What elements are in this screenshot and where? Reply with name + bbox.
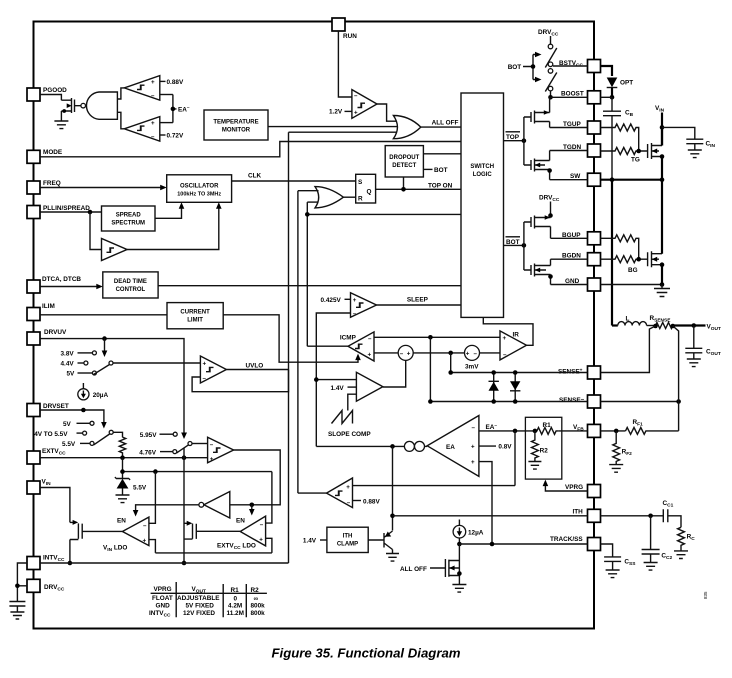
svg-text:3mV: 3mV: [465, 363, 479, 370]
svg-text:0.88V: 0.88V: [167, 79, 184, 86]
wire MODE to switch logic: [40, 142, 461, 157]
wire zener stem: [122, 458, 124, 479]
wire driver to BGUP line: [550, 227, 552, 239]
MOSFET EXTVCC pass device: [184, 523, 196, 539]
svg-text:IR: IR: [513, 332, 520, 339]
svg-text:TG: TG: [631, 157, 640, 164]
pin TRACK/SS: [588, 538, 601, 551]
wire dropout detect BOT stub: [423, 168, 432, 170]
wire to CIN: [662, 127, 695, 139]
wire R1 to VFB pin: [558, 430, 587, 432]
wire GND external: [601, 284, 663, 286]
wire DTCA,DTCB into dead time control: [40, 286, 98, 288]
svg-text:–: –: [151, 93, 155, 100]
svg-text:ITH: ITH: [343, 534, 353, 540]
svg-text:∞: ∞: [254, 596, 259, 603]
svg-text:0: 0: [234, 596, 238, 603]
svg-text:DROPOUT: DROPOUT: [389, 155, 419, 161]
wire SW pin line (inside): [550, 179, 588, 181]
wire inverter output to VIN LDO EN: [136, 505, 199, 512]
wire SENSE- external: [601, 401, 679, 403]
svg-text:SPECTRUM: SPECTRUM: [111, 221, 145, 227]
svg-text:11.2M: 11.2M: [227, 610, 244, 617]
svg-text:+: +: [151, 120, 155, 127]
ground: [10, 612, 24, 619]
pin BSTVCC: [588, 60, 601, 73]
pin SENSE+: [588, 366, 601, 379]
svg-text:+: +: [346, 484, 350, 491]
svg-text:+: +: [407, 350, 411, 357]
wire VPRG arrow into divider box: [545, 486, 587, 491]
MOSFET BG driver pull-down: [524, 264, 551, 277]
comparator ICMP: [348, 332, 374, 361]
svg-text:ALL OFF: ALL OFF: [432, 120, 459, 127]
svg-text:L: L: [626, 316, 630, 323]
pin BOOST: [588, 91, 601, 104]
ground under ALL OFF FET: [452, 585, 466, 593]
wire SENSE- line: [430, 401, 587, 403]
svg-text:GND: GND: [156, 603, 171, 610]
svg-text:DRVSET: DRVSET: [43, 403, 69, 410]
svg-text:Q: Q: [367, 189, 372, 196]
pin BGUP: [588, 232, 601, 245]
MOSFET TG power FET: [648, 143, 662, 159]
svg-text:TOP ON: TOP ON: [428, 183, 453, 190]
PGOOD pull-down MOSFET Q1: [61, 98, 81, 113]
svg-text:+: +: [368, 351, 372, 358]
svg-text:Figure 35. Functional Diagram: Figure 35. Functional Diagram: [271, 646, 460, 661]
svg-text:LOGIC: LOGIC: [473, 172, 493, 178]
svg-text:5V: 5V: [67, 371, 76, 378]
svg-text:ALL OFF: ALL OFF: [400, 566, 427, 573]
wire TRACK/SS line: [459, 543, 587, 545]
svg-text:–: –: [353, 310, 357, 317]
svg-text:–: –: [400, 350, 404, 357]
pin PLLIN/SPREAD: [27, 206, 40, 219]
ground power stage: [654, 285, 670, 297]
wire driver source to GND: [550, 275, 552, 285]
wire comparator A minus to EA- node: [160, 94, 173, 96]
svg-text:CURRENT: CURRENT: [180, 310, 210, 316]
wire ICMP to switch logic: [307, 213, 461, 215]
wire FET source to ground: [60, 111, 62, 121]
inverter U4: [204, 492, 230, 519]
MOSFET TG driver pull-down: [524, 159, 550, 172]
wire gate to EXTVCC LDO output: [196, 530, 240, 532]
resistor RC: [678, 527, 685, 551]
box CURRENT LIMIT: [167, 303, 223, 329]
svg-text:TRACK/SS: TRACK/SS: [550, 536, 583, 543]
wire sense- vertical from ICMP line: [429, 337, 431, 401]
ground under R2: [528, 462, 541, 470]
wire to 0.72V ref: [160, 134, 166, 136]
svg-text:PGOOD: PGOOD: [43, 87, 67, 94]
svg-text:R2: R2: [540, 447, 549, 454]
wire comparator A output to NAND input 1: [117, 88, 124, 99]
wire schmitt buffer to oscillator: [127, 208, 219, 250]
svg-text:4.2M: 4.2M: [228, 603, 242, 610]
svg-text:LIMIT: LIMIT: [187, 318, 203, 324]
box TEMPERATURE MONITOR: [204, 110, 268, 140]
wire wiper to EXTVCC comparator: [192, 443, 208, 445]
wire latch Q TOP ON to switch logic: [376, 188, 461, 190]
comparator SLEEP 0.425V: [351, 293, 377, 318]
ground under CIN: [688, 150, 702, 158]
switch wiper DRVUV threshold: [109, 361, 113, 365]
wire TOP gate bus: [523, 117, 525, 165]
switch contact lower: [548, 86, 553, 91]
comparator 1.2V (RUN): [352, 90, 377, 119]
comparator 0.88V (power good internal): [327, 478, 353, 508]
svg-text:–: –: [203, 375, 207, 382]
pin PGOOD: [27, 88, 40, 101]
svg-text:DTCA, DTCB: DTCA, DTCB: [42, 276, 81, 283]
wire ICMP output to bus: [307, 345, 348, 347]
external INTVCC/DRVCC bypass cap wire: [17, 563, 27, 602]
resistor EXTVCC pull: [119, 437, 125, 458]
ground under CSS: [606, 570, 620, 578]
summing element (slope comp): [398, 345, 413, 360]
pin EXTVCC: [27, 451, 40, 464]
vertical INTVCC feed (x=184): [183, 448, 185, 563]
svg-text:CLK: CLK: [248, 173, 262, 180]
wire driver source to SW: [549, 170, 551, 180]
capacitor CC2: [642, 516, 660, 563]
svg-text:+: +: [354, 110, 358, 117]
pin TGUP: [588, 121, 601, 134]
wire dead time control to switch logic: [158, 285, 461, 287]
svg-text:4.4V: 4.4V: [61, 361, 75, 368]
svg-text:ICMP: ICMP: [340, 335, 357, 342]
wire VIN LDO plus to INTVCC sense: [149, 540, 156, 553]
IC chip boundary: [34, 22, 595, 629]
svg-text:1.4V: 1.4V: [303, 538, 317, 545]
wire TRACK/SS external: [601, 544, 613, 557]
wire DRVUV line: [40, 339, 184, 434]
svg-text:SW: SW: [570, 173, 581, 180]
wire TGUP pin line: [550, 127, 588, 129]
svg-text:S: S: [358, 179, 363, 186]
svg-text:OSCILLATOR: OSCILLATOR: [180, 183, 219, 189]
switch wiper EXTVCC threshold: [188, 442, 192, 446]
svg-text:EN: EN: [117, 518, 126, 525]
wire PLLIN to schmitt buffer: [90, 212, 102, 250]
wire ILIM into current limit: [40, 314, 167, 316]
pin DTCA, DTCB: [27, 280, 40, 293]
ground under CC2: [644, 563, 658, 571]
resistor RF1: [626, 428, 679, 435]
capacitor CC1: [663, 509, 681, 527]
wire EA plus to track/ss: [479, 462, 492, 544]
wire TGDN pin line: [550, 150, 588, 152]
wire UVLO bus to OR gate input: [289, 131, 398, 133]
wire INTVCC rail: [40, 562, 289, 564]
svg-text:+: +: [471, 459, 475, 466]
bus UVLO/INTVCC (long vertical): [288, 132, 290, 563]
wire VFB external: [601, 430, 626, 432]
svg-text:5.5V: 5.5V: [62, 441, 76, 448]
svg-text:SENSE–: SENSE–: [559, 396, 585, 404]
ground under RC: [674, 551, 688, 559]
MOSFET BG power FET: [648, 251, 662, 267]
svg-text:MONITOR: MONITOR: [222, 128, 251, 134]
svg-text:12V FIXED: 12V FIXED: [183, 610, 215, 617]
svg-text:BG: BG: [628, 267, 638, 274]
svg-text:–: –: [474, 350, 478, 357]
transistor Q3 ITH clamp (PNP): [368, 531, 392, 550]
svg-text:+: +: [151, 79, 155, 86]
wire dropout detect to TOP ON node: [403, 177, 405, 189]
node BOOST external: [610, 95, 615, 100]
svg-text:0.88V: 0.88V: [363, 498, 380, 505]
sawtooth slope comp symbol: [332, 411, 353, 424]
wire CLK oscillator to latch S: [232, 180, 356, 182]
schmitt buffer U3: [102, 239, 128, 261]
pin ILIM: [27, 308, 40, 321]
pin TGDN: [588, 144, 601, 157]
svg-text:3.8V: 3.8V: [61, 351, 75, 358]
wire EXTVCC pin to comparator: [40, 457, 208, 459]
wire RUN comparator to OR gate: [377, 104, 397, 121]
wire OR output ALL OFF to switch logic: [421, 126, 461, 128]
wire driver to BOOST node: [549, 97, 551, 112]
current source 20uA: [82, 383, 84, 389]
svg-text:–: –: [347, 499, 351, 506]
svg-text:+: +: [353, 297, 357, 304]
wire BOT from switch logic: [504, 244, 524, 246]
wire EA- node to 0.88V comparator: [353, 431, 516, 486]
zener diode 5.5V: [115, 477, 130, 480]
wire driver to TGUP line: [549, 122, 551, 128]
wire 0.88V ref stub: [353, 500, 362, 502]
svg-text:–: –: [354, 93, 358, 100]
svg-text:RUN: RUN: [343, 33, 357, 40]
wire SLEEP minus sense (vertical bus x=316.3): [316, 313, 350, 446]
svg-text:TOP: TOP: [506, 134, 520, 141]
svg-text:R1: R1: [543, 422, 552, 429]
OR gate latch reset: [315, 187, 343, 208]
wire BGUP external with gate resistor: [601, 235, 639, 259]
current source 12uA: [458, 520, 460, 526]
MOSFET BG driver pull-up: [524, 216, 551, 229]
wire EA output line: [316, 445, 404, 447]
svg-text:BOT: BOT: [434, 167, 448, 174]
svg-text:BOT: BOT: [506, 239, 520, 246]
wire 0.88V bus to OR2 input: [298, 190, 319, 192]
wire ICMP minus line to IR plus: [374, 336, 500, 338]
svg-text:ILIM: ILIM: [42, 303, 55, 310]
wire ICMP plus to summing node: [374, 352, 398, 354]
svg-text:–: –: [472, 425, 476, 432]
wire ITH line: [393, 515, 588, 517]
svg-text:TEMPERATURE: TEMPERATURE: [213, 120, 258, 126]
wire EA output down to ITH: [392, 446, 394, 530]
capacitor CB: [603, 97, 621, 179]
svg-text:DETECT: DETECT: [392, 163, 416, 169]
offset source 3mV: [465, 345, 480, 360]
svg-text:5.5V: 5.5V: [133, 485, 147, 492]
wire BSTVCC external (thick): [601, 66, 613, 76]
svg-text:+: +: [466, 350, 470, 357]
wire SW node (thick): [601, 179, 663, 181]
svg-text:EA: EA: [446, 444, 455, 451]
wire sawtooth input: [348, 394, 357, 410]
wire 1.4V comp output to summing node: [383, 360, 406, 387]
pin RUN (top edge): [332, 18, 345, 31]
svg-text:20µA: 20µA: [93, 392, 109, 399]
bus 0.88V comparator output (vertical): [297, 191, 299, 493]
amp VIN LDO: [122, 517, 148, 546]
wire driver to BGDN line: [550, 259, 552, 265]
svg-text:+: +: [210, 456, 214, 463]
wire FET drain to TRACK/SS: [458, 544, 460, 561]
wire 12uA to TRACK/SS line: [458, 538, 460, 544]
wire L to RSENSE: [647, 325, 656, 327]
wire VIN LDO minus to zener rail: [149, 472, 156, 524]
wire TGDN external with gate resistor: [601, 148, 648, 155]
wire UVLO output to bus: [226, 369, 288, 371]
wire OR2 to latch R: [343, 196, 355, 198]
svg-text:DRVUV: DRVUV: [44, 329, 67, 336]
switch wiper DRVSET: [109, 430, 113, 434]
svg-text:100kHz TO 3MHz: 100kHz TO 3MHz: [177, 191, 221, 197]
wire 3mV to IR minus: [480, 352, 501, 354]
svg-text:5.95V: 5.95V: [140, 432, 157, 439]
wire comparator B output to NAND input 2: [117, 112, 124, 129]
svg-text:5V FIXED: 5V FIXED: [186, 603, 215, 610]
svg-text:MODE: MODE: [43, 149, 63, 156]
svg-text:800k: 800k: [251, 610, 266, 617]
capacitor COUT: [685, 326, 702, 360]
wire BOOST pin line: [551, 96, 588, 98]
svg-text:12µA: 12µA: [468, 530, 484, 537]
wire FET source to INTVCC: [69, 540, 71, 564]
wire temp monitor to OR gate: [268, 126, 397, 128]
wire SENSE+ line: [451, 372, 588, 374]
svg-text:VPRG: VPRG: [565, 484, 583, 491]
capacitor CIN: [686, 139, 703, 150]
svg-text:R: R: [358, 196, 363, 203]
wire zener node rail: [123, 471, 272, 473]
wire SENSE+ external: [601, 326, 656, 373]
pin BGDN: [588, 253, 601, 266]
wire FET source to ground: [458, 561, 460, 585]
wire EXTVCC LDO plus: [266, 538, 272, 553]
svg-text:EN: EN: [236, 518, 245, 525]
svg-text:OPT: OPT: [620, 80, 633, 87]
svg-text:–: –: [151, 134, 155, 141]
svg-text:–: –: [210, 441, 214, 448]
wire sense+ vertical from summing line: [450, 353, 452, 373]
wire GND pin line (inside): [551, 284, 588, 286]
wire slope comp top input from bus: [316, 379, 356, 381]
wire wiper to EXTVCC resistor: [113, 432, 122, 437]
wire EXTVCC LDO minus to zener rail: [266, 472, 272, 523]
svg-text:PLLIN/SPREAD: PLLIN/SPREAD: [43, 205, 90, 212]
svg-text:–: –: [260, 521, 264, 528]
wire SLEEP to switch logic: [377, 304, 462, 306]
svg-text:BOT: BOT: [508, 64, 522, 71]
box SWITCH LOGIC: [461, 93, 504, 317]
pin ITH: [588, 509, 601, 522]
wire BGDN external with gate resistor: [601, 256, 648, 263]
wire TGUP external with gate resistor: [601, 124, 639, 151]
arrow EXTVCC LDO EN: [251, 505, 253, 511]
comparator slope comp 1.4V: [356, 372, 383, 401]
wire FREQ into oscillator: [40, 187, 162, 189]
ground under zener: [116, 495, 130, 503]
switch contacts BSTVCC: [548, 62, 553, 67]
svg-text:ADJUSTABLE: ADJUSTABLE: [177, 595, 220, 602]
diode D2 (down): [510, 373, 520, 402]
node EA- vertical: [173, 95, 177, 123]
box ITH CLAMP: [327, 527, 368, 552]
wire EA minus to R1: [479, 430, 535, 432]
svg-text:–: –: [368, 335, 372, 342]
wire UVLO hysteresis loop: [192, 370, 288, 392]
pin GND: [588, 278, 601, 291]
amp EXTVCC LDO: [240, 516, 265, 546]
gm output stage (double circle): [404, 441, 414, 451]
ground under RF2: [609, 465, 623, 473]
wire gate to VIN LDO output: [82, 530, 122, 532]
pin MODE: [27, 150, 40, 163]
latch SR: [356, 174, 376, 203]
wire BGUP pin line: [551, 237, 588, 239]
wire to 0.88V ref: [160, 80, 166, 82]
wire current limit to ICMP threshold arrow: [223, 315, 358, 362]
pin DRVUV: [27, 332, 40, 345]
resistor RSENSE: [656, 323, 673, 329]
pin DRVCC: [27, 579, 40, 592]
box DEAD TIME CONTROL: [103, 272, 158, 298]
wire EXTVCC comparator output to inverter: [230, 450, 280, 505]
box OSCILLATOR: [167, 175, 232, 203]
svg-text:–: –: [143, 522, 147, 529]
svg-text:UVLO: UVLO: [246, 362, 264, 369]
wire summing to 3mV: [413, 352, 464, 354]
pin VIN: [27, 481, 40, 494]
svg-text:5V: 5V: [63, 421, 72, 428]
svg-text:ITH: ITH: [573, 509, 584, 516]
resistor RF2: [613, 431, 620, 465]
wire VOUT feedback vertical: [673, 326, 679, 431]
wire RSENSE to VOUT (thick): [673, 324, 706, 326]
wire RUN to comparator: [338, 31, 352, 97]
box DROPOUT DETECT: [385, 146, 423, 177]
diode D1 (up): [489, 373, 499, 402]
comparator IR: [500, 331, 527, 360]
svg-text:BOOST: BOOST: [561, 91, 584, 98]
wire TOP from switch logic: [504, 140, 524, 142]
junction at DRVCC: [15, 584, 20, 589]
svg-text:VPRG: VPRG: [154, 586, 172, 593]
wire EA 0.8V ref: [479, 445, 496, 447]
wire ITH external: [601, 515, 664, 517]
table rules: [151, 582, 267, 617]
svg-text:0.72V: 0.72V: [167, 133, 184, 140]
switch arm 2: [545, 73, 557, 92]
wire BSTVCC pin to switch: [553, 65, 588, 67]
comparator 0.88V (PGOOD OV): [124, 76, 160, 101]
svg-text:DEAD TIME: DEAD TIME: [114, 279, 147, 285]
ground under PGOOD FET: [54, 121, 68, 129]
svg-text:+: +: [471, 443, 475, 450]
comparator UVLO: [200, 356, 226, 383]
wire LDO plus sense rail: [155, 552, 272, 554]
svg-text:SWITCH: SWITCH: [470, 164, 494, 170]
arrow DRVSET select (down): [181, 433, 187, 440]
